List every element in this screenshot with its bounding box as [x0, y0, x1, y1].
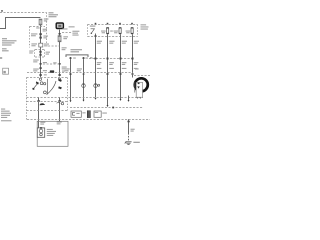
pump motor sub box [37, 128, 44, 137]
wire relay out right [59, 98, 61, 122]
fuse F5 in box [131, 28, 133, 34]
label pin letters [73, 58, 76, 59]
label right of fuse2 [110, 31, 113, 32]
label wire fuse3 [109, 41, 114, 44]
connector ticks below relay [38, 100, 40, 102]
connector tick main wire y63.5 [40, 63, 42, 65]
connector ticks at y73-76 main wires [40, 74, 42, 76]
labels above y73 line [97, 68, 138, 69]
dashed fuse box bottom edge [88, 36, 138, 38]
splice S1 [39, 43, 43, 47]
wire ign1 end arrow [95, 98, 97, 100]
dashed compartment line right y75.2 [134, 75, 150, 77]
wire into icon [132, 73, 134, 78]
label fuse F5 [126, 31, 131, 32]
ignition switch SW1 [91, 29, 95, 33]
labels below y58.5 line [97, 62, 139, 65]
ground symbol G305 [125, 142, 132, 145]
node label top-left tick [1, 10, 3, 12]
dashed connector line y46 [48, 45, 60, 47]
label wire A [65, 68, 70, 71]
label pins relay [44, 74, 47, 75]
connector tick on stem [59, 33, 61, 35]
white rect of icon [136, 82, 142, 97]
wire relay out left [38, 98, 40, 129]
wire ign1 vertical [95, 37, 97, 98]
label pins left [31, 33, 48, 38]
label wire fuse4 [122, 41, 127, 44]
label C1 right of wire [36, 27, 47, 31]
connector bracket bar [66, 55, 88, 57]
dashed fuse box top edge [88, 24, 138, 26]
small circle right of ign1 splice [98, 84, 100, 86]
wire ground right lower [128, 119, 130, 133]
label right of stem [63, 28, 68, 29]
label right of pump [47, 129, 56, 136]
splice circle on wire ign1 [94, 84, 98, 88]
dashed box underhood fuse block top edge [0, 12, 47, 14]
label right end small [135, 68, 139, 69]
connector ticks at y58.5 [95, 58, 97, 60]
wire fuse5 vertical [132, 34, 134, 76]
relay box K2 dashed outline [27, 77, 68, 79]
label fuse F4 [114, 31, 119, 32]
wire battery feed [0, 18, 41, 29]
label hot in run text block left [2, 38, 17, 51]
labels near main wire y59-72 [33, 60, 47, 72]
wire B vertical [83, 60, 85, 101]
tick on y107.5 line [112, 107, 114, 109]
relay interior sketch [34, 79, 57, 95]
wire ground right stub top [128, 96, 130, 102]
dashed line y97.5 [27, 97, 144, 99]
label right of center wire [62, 47, 67, 50]
dashed line y107.8 right [70, 107, 143, 109]
label ground wire [131, 129, 135, 132]
dashed line y119.3 [27, 119, 150, 121]
connector dashed left edge x29 [29, 27, 31, 48]
connector dashed line y26.5 [30, 26, 46, 28]
label fuel pump relay text block [69, 26, 80, 35]
label inside fuse box [90, 26, 96, 27]
car icon black blob [40, 103, 45, 105]
splice circle on wire B [82, 84, 86, 88]
wire relay stem [59, 30, 61, 36]
label right of fuse box [141, 24, 149, 29]
icon handle line [134, 82, 136, 93]
label ground [133, 142, 139, 143]
label wire to pump [40, 122, 61, 125]
label splice left [31, 43, 49, 46]
label fuse F1 [44, 18, 49, 21]
dashed bulkhead line y58.5 [89, 58, 135, 60]
connector C100 on main wire [34, 50, 36, 58]
wire fuse4 vertical [120, 34, 122, 100]
wire fuse3 vertical [107, 34, 109, 106]
dashed box2 top edge y101.5 [27, 101, 68, 103]
label wire B [77, 68, 82, 71]
wire fuse4 end arrow [120, 99, 122, 101]
label left of center wire y62 [53, 62, 56, 63]
dark hatched bar [87, 110, 91, 118]
dashed box2 bottom edge y110.5 [27, 110, 68, 112]
pin B mark [83, 57, 85, 60]
wire fuse3 end arrow [107, 105, 109, 107]
label wire fuse5 [134, 41, 139, 44]
wire main feed vertical [40, 25, 42, 77]
dashed connector line y64 [43, 63, 58, 65]
box3 [94, 111, 101, 117]
big arc component icon [135, 78, 148, 91]
label fuse F3 [101, 31, 106, 32]
dashed fuse box right edge [137, 25, 139, 37]
wire A end arrow [70, 100, 72, 102]
fuse F3 in box [107, 28, 109, 34]
fuel pump assembly box [37, 121, 68, 146]
wire B end arrow [83, 100, 85, 102]
label small text near left edge y57 [0, 57, 2, 59]
connector marks main wire y67-69 [40, 67, 42, 69]
small sketch right in box2 [57, 102, 61, 103]
fuse F2 [58, 36, 61, 42]
label underhood fuse block [49, 12, 59, 17]
relay icon K1 (dark component top-center) [56, 23, 63, 29]
connector tick center wire y63.5 [59, 63, 61, 65]
connector pins on main wire [39, 33, 41, 35]
fuse F4 in box [119, 28, 121, 34]
relay pin circles [39, 78, 41, 80]
label fuse F2 [63, 36, 68, 39]
page reference icon box [3, 68, 9, 74]
fuel sender box1 [71, 111, 81, 117]
dashed compartment line y73 [27, 72, 133, 74]
label wire ign1 [97, 41, 102, 44]
dashed fuse box left edge [87, 25, 89, 37]
label left big text block [1, 109, 12, 122]
dashed box underhood fuse block right edge [46, 13, 48, 45]
wire A vertical [70, 60, 72, 101]
dashed connector line y32.5 [62, 32, 72, 34]
label above bracket (fuel pump) [71, 49, 83, 52]
wire center vertical from F2 [59, 42, 61, 77]
fuse F1 [39, 19, 42, 25]
pin A mark [70, 57, 72, 60]
black blob on line (connector body) [50, 70, 54, 72]
icon feet [137, 97, 140, 98]
pin ticks above fuse box edge [95, 23, 97, 25]
